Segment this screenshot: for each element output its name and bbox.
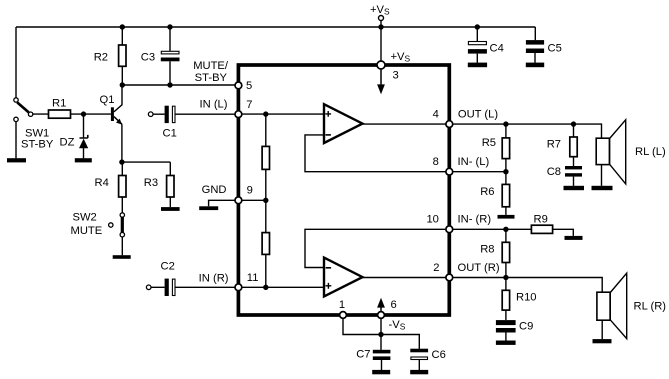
capacitor C1 [165,106,175,123]
node emitter [119,159,124,164]
terminal +Vs [379,16,384,21]
svg-text:+VS: +VS [391,51,411,64]
label pin number 7 [246,99,252,111]
svg-text:C3: C3 [141,52,155,64]
pin 5 [235,82,242,89]
wire top +Vs rail [16,26,535,28]
svg-text:R6: R6 [480,186,494,198]
svg-text:R4: R4 [95,177,109,189]
node out-R R10 [503,275,508,280]
label pin number 3 [393,70,399,82]
ground SW2 [113,255,131,259]
label C7 [356,349,370,361]
wire C8 to ground [573,177,575,186]
label R10 [516,292,537,304]
node pin9 row [263,198,268,203]
svg-text:SW2: SW2 [73,212,97,224]
label pin number 5 [246,80,252,92]
svg-text:OUT (L): OUT (L) [458,108,498,120]
speaker RL (L) [596,120,626,184]
internal resistor B [262,233,269,255]
switch SW1 [14,98,33,122]
wire C4 leads [476,27,478,63]
wire DZ leads [83,114,85,158]
wire pin 1 to -Vs node [343,315,381,335]
label -Vs [389,319,406,332]
wire SW1 to ground [15,119,17,158]
speaker RL (R) [597,273,627,338]
wire R4 leads [121,162,123,215]
ground C4 [468,63,487,68]
node pin7 row [263,111,268,116]
ground SW1 [7,158,26,162]
svg-text:R7: R7 [547,139,561,151]
node rail-C4 [475,24,480,29]
capacitor C3 [161,51,180,61]
wire left drop to SW1 [15,27,17,100]
svg-text:5: 5 [246,80,252,92]
label OUT (R) [458,262,500,274]
label R8 [480,244,494,256]
resistor R2 [119,45,126,66]
label R6 [480,186,494,198]
svg-text:Q1: Q1 [100,94,115,106]
resistor R9 [531,225,552,233]
label GND [202,184,227,196]
svg-text:IN (L): IN (L) [200,99,228,111]
wire C9 to ground [505,333,507,341]
wire R2 leads [121,27,123,85]
wire U2 output to pin 2 [361,277,449,279]
ground C8 [564,186,585,190]
node rail-R2 [120,24,125,29]
label pin number 11 [247,272,259,284]
wire GND pin 9 [209,200,239,206]
label IN (R) [199,272,229,284]
label R2 [94,52,108,64]
svg-text:6: 6 [391,299,397,311]
svg-text:9: 9 [247,184,253,196]
label C8 [547,166,561,178]
wire R9 to ground [553,229,574,236]
terminal C1 input [148,112,153,117]
label C5 [548,43,562,55]
node rail-Vs [378,24,383,29]
label +Vs pin 3 [391,51,411,64]
arrow into pin 3 [377,68,385,94]
resistor R4 [119,176,126,198]
svg-text:MUTE: MUTE [71,225,103,237]
svg-text:C9: C9 [519,321,533,333]
wire pin 6 to -Vs node [380,315,382,335]
wire rail corner to C5 [534,27,536,63]
svg-text:R2: R2 [94,52,108,64]
label C6 [432,349,446,361]
resistor R7 [570,137,577,157]
label R7 [547,139,561,151]
pin 9 [235,197,242,204]
capacitor C8 [565,166,582,177]
transistor Q1 [111,107,122,124]
wire C1 to pin 7 [153,113,238,115]
label pin number 8 [433,156,439,168]
wire C2 to pin 11 [151,286,238,288]
label R4 [95,177,109,189]
label IN- (L) [458,156,490,168]
ground C7 [372,370,390,374]
wire R1 row / Q1 base [33,113,111,115]
wire R8 leads [505,229,507,277]
label RL (L) [635,146,666,158]
label +Vs top [370,4,390,17]
svg-text:C2: C2 [161,261,175,273]
wire R5 leads [505,124,507,172]
resistor R1 [49,110,71,118]
wire +Vs terminal to pin 3 [380,18,382,65]
pin 11 [235,284,242,291]
wire emitter node row [122,161,170,163]
pin 8 [446,168,453,175]
svg-text:R3: R3 [144,177,158,189]
pin 2 [446,274,453,281]
label RL (R) [634,301,667,313]
svg-text:R10: R10 [516,292,537,304]
label DZ [60,137,75,149]
label pin number 4 [433,108,439,120]
resistor R6 [502,184,509,206]
wire pin 9 row [238,199,265,201]
wire R6 leads [505,172,507,215]
svg-text:C1: C1 [163,128,177,140]
svg-text:RL (L): RL (L) [635,146,666,158]
op-amp U2 [324,258,363,297]
resistor R3 [167,176,174,198]
label MUTE/ST-BY [193,60,229,84]
node R1-DZ [81,111,86,116]
svg-text:10: 10 [426,214,438,226]
svg-text:R1: R1 [52,98,66,110]
wire C6 to ground [418,360,420,370]
pin 10 [446,226,453,233]
node pin11 row [263,285,268,290]
node rail-C3 [167,24,172,29]
svg-text:R5: R5 [482,137,496,149]
label pin number 1 [339,299,345,311]
node out-L R7 [571,121,576,126]
wire Q1 emitter drop [121,124,123,162]
svg-text:C6: C6 [432,349,446,361]
resistor R10 [502,290,509,310]
capacitor C9 [496,320,516,332]
wire C7 to ground [381,360,383,370]
node mute-C3 [167,82,172,87]
label IN (L) [200,99,228,111]
wire MUTE/ST-BY line to pin 5 [122,84,238,86]
arrow into pin 6 [377,298,385,312]
svg-text:GND: GND [202,184,227,196]
svg-text:R8: R8 [480,244,494,256]
pin 3 [377,61,385,69]
wire R7 leads [573,124,575,166]
label C2 [161,261,175,273]
wire IN- (R) row [449,228,531,230]
wire C3 leads [169,27,171,85]
ground RL (L) [592,186,613,190]
pin 6 [378,312,385,319]
ground C5 [526,63,544,68]
capacitor C5 [526,40,544,53]
label SW1 ST-BY [21,128,54,151]
node out-L R5 [503,121,508,126]
svg-text:1: 1 [339,299,345,311]
capacitor C4 [468,42,487,54]
ground R6 [498,215,515,219]
label pin number 10 [426,214,438,226]
svg-text:C4: C4 [490,43,504,55]
node -Vs [378,332,383,337]
pin 7 [235,111,242,118]
label pin number 2 [433,262,439,274]
svg-text:11: 11 [247,272,259,284]
svg-text:ST-BY: ST-BY [21,139,54,151]
label SW2 MUTE [71,212,103,238]
wire OUT (R) row to speaker [449,278,602,293]
capacitor C2 [165,279,175,296]
wire R3 leads [169,162,171,207]
label C1 [163,128,177,140]
capacitor C6 [410,349,428,360]
op-amp U1 [324,104,363,143]
ground R3 [161,207,180,211]
wire internal resistor A leads [265,114,267,200]
wire U2 feedback loop from pin 10 [305,229,449,267]
switch SW2 [109,213,125,237]
label Q1 [100,94,115,106]
svg-text:7: 7 [246,99,252,111]
ground R9 [565,236,583,240]
wire pin 11 row to op-amp U2 [238,286,324,288]
svg-text:MUTE/: MUTE/ [193,60,229,72]
svg-text:ST-BY: ST-BY [195,72,228,84]
wire U1 output to pin 4 [361,123,449,125]
svg-text:4: 4 [433,108,439,120]
wire R10 leads [505,278,507,321]
svg-text:2: 2 [433,262,439,274]
pin 1 [340,312,347,319]
wire IN- (L) row [449,171,506,173]
capacitor C7 [373,350,391,360]
resistor R5 [502,138,509,159]
label pin number 6 [391,299,397,311]
resistor R8 [502,242,509,262]
label C9 [519,321,533,333]
node in-L R6 [503,169,508,174]
pin 4 [446,121,453,128]
svg-text:C8: C8 [547,166,561,178]
wire SW2 to ground [121,235,123,256]
IC block U3 [238,65,449,315]
svg-text:R9: R9 [534,214,548,226]
terminal C2 input [146,285,151,290]
label R9 [534,214,548,226]
ground C9 [496,341,516,345]
wire Q1 collector [114,85,122,112]
internal resistor A [262,146,269,169]
svg-text:-VS: -VS [389,319,406,332]
label R1 [52,98,66,110]
wire pin 7 row to op-amp U1 [238,113,324,115]
node in-R R8 [503,227,508,232]
label R3 [144,177,158,189]
ground pin 9 GND [199,206,218,210]
junction node dots [81,24,576,337]
svg-text:C7: C7 [356,349,370,361]
wire U1 feedback loop to pin 8 [305,135,449,172]
svg-text:RL (R): RL (R) [634,301,667,313]
svg-text:OUT (R): OUT (R) [458,262,500,274]
svg-text:IN- (L): IN- (L) [458,156,490,168]
ground RL (R) [593,339,612,343]
ground DZ [75,158,92,162]
label C4 [490,43,504,55]
wire speaker RL (L) to ground [601,165,603,186]
svg-text:8: 8 [433,156,439,168]
wire -Vs node to C7 and C6 [381,335,419,350]
label C3 [141,52,155,64]
zener diode DZ [79,135,88,148]
svg-text:3: 3 [393,70,399,82]
svg-text:IN (R): IN (R) [199,272,229,284]
label R5 [482,137,496,149]
wire internal resistor B leads [265,200,267,287]
svg-text:C5: C5 [548,43,562,55]
svg-text:+VS: +VS [370,4,390,17]
ground C6 [410,370,428,374]
node mute-R2 [120,82,125,87]
svg-text:IN- (R): IN- (R) [458,214,492,226]
label OUT (L) [458,108,498,120]
svg-text:DZ: DZ [60,137,75,149]
label pin number 9 [247,184,253,196]
wire speaker RL (R) to ground [601,320,603,339]
label IN- (R) [458,214,492,226]
wire OUT (L) row to speaker [449,124,601,138]
